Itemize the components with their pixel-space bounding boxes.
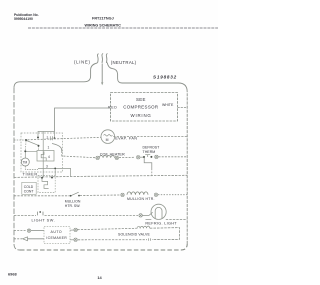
wire mullion to right border	[158, 194, 187, 196]
evap fan motor circle	[101, 130, 115, 144]
svg-text:(LINE): (LINE)	[74, 60, 91, 65]
wire compressor red lead to timer	[55, 108, 111, 132]
connector icemaker out upper	[74, 228, 77, 231]
light switch	[38, 212, 44, 216]
wire evap fan feed	[28, 137, 102, 140]
header rule	[28, 27, 218, 29]
timer dashed box	[21, 133, 63, 172]
wire heater to defrost thermostat	[119, 156, 135, 158]
wire neutral return rail	[14, 175, 187, 177]
power cord hook 3	[106, 54, 107, 64]
wire return to icemaker	[78, 239, 147, 241]
wire icemaker to solenoid	[78, 228, 137, 229]
svg-text:LIGHT SW.: LIGHT SW.	[32, 218, 56, 222]
svg-text:COMPRESSOR: COMPRESSOR	[123, 104, 158, 109]
svg-text:COLD: COLD	[24, 185, 34, 189]
wire TM feed	[25, 151, 37, 158]
svg-text:1: 1	[48, 146, 50, 150]
wire A down to TM node	[24, 141, 27, 151]
wire contact 3 drop	[38, 146, 40, 151]
connector defrost right	[155, 155, 158, 158]
wire icemaker upper	[14, 230, 27, 232]
timer motor lower lead	[25, 166, 38, 169]
wire border to timer common	[14, 139, 26, 141]
wire inner box bottom	[38, 168, 71, 176]
wire light switch line	[14, 214, 36, 216]
cold control dashed box	[38, 176, 55, 193]
svg-text:DEFROST: DEFROST	[143, 146, 161, 150]
svg-text:14: 14	[97, 275, 102, 280]
connector light line	[139, 214, 142, 217]
svg-text:WIRING: WIRING	[131, 113, 152, 118]
svg-text:4: 4	[48, 155, 50, 159]
timer motor circle TM	[21, 158, 29, 166]
mullion heater element	[127, 192, 148, 195]
wire switch to lamp	[45, 214, 139, 216]
svg-text:AUTO: AUTO	[51, 230, 63, 234]
mullion heater switch	[70, 195, 72, 197]
power cord hook 1	[97, 54, 98, 63]
svg-text:TIMER: TIMER	[23, 171, 38, 176]
wire contact 1 drop to cold control	[42, 132, 44, 178]
wire icemaker lower	[14, 238, 22, 240]
timer contact blade	[27, 141, 39, 146]
auto icemaker dashed box	[44, 227, 70, 244]
svg-text:3: 3	[46, 164, 48, 168]
refrigerator lamp	[151, 204, 166, 219]
svg-text:CONT: CONT	[24, 190, 34, 194]
connector on heater left	[96, 156, 99, 159]
lamp leads	[146, 219, 152, 221]
svg-text:THERM: THERM	[143, 150, 156, 154]
timer terminal dots	[25, 139, 27, 141]
timer inner contact box	[37, 151, 54, 162]
svg-text:WHITE: WHITE	[162, 103, 174, 107]
wire evap fan to right border	[113, 136, 187, 138]
wire switch to connector	[80, 194, 120, 197]
wire defrost to right border	[159, 156, 188, 158]
wire connector to lamp	[142, 212, 152, 215]
svg-text:6968: 6968	[8, 272, 17, 277]
defrost thermostat bulb stair	[144, 158, 152, 169]
connector icemaker upper	[27, 229, 30, 232]
power cord hook 2	[102, 54, 103, 64]
defrost thermostat contacts	[140, 156, 144, 158]
svg-text:EVAP. FAN: EVAP. FAN	[115, 137, 137, 141]
wire: line-side rail, left border, bottom border, right border, neutral rail	[14, 63, 97, 88]
water valve solenoid coil	[137, 226, 150, 228]
cold control terminal dots	[41, 177, 43, 179]
svg-text:M: M	[106, 138, 109, 142]
timer cam zigzag	[41, 152, 46, 161]
coil heater element	[99, 156, 114, 158]
wire defrost heater feed	[52, 144, 62, 152]
cold control label box	[22, 182, 36, 194]
svg-text:REFRIG. LIGHT: REFRIG. LIGHT	[145, 222, 177, 226]
connector valve return	[149, 238, 151, 240]
svg-text:SOLENOID VALVE: SOLENOID VALVE	[118, 233, 150, 237]
svg-text:MULLION: MULLION	[65, 199, 81, 203]
svg-text:ICEMAKER: ICEMAKER	[46, 236, 67, 240]
wire contact 2 riser	[38, 132, 55, 138]
connector defrost left	[137, 156, 140, 159]
wire solenoid return loop	[150, 228, 180, 240]
svg-text:FRT21TNGJ: FRT21TNGJ	[92, 16, 114, 20]
wire mullion heater line	[14, 195, 70, 197]
svg-text:HTR. SW.: HTR. SW.	[65, 204, 81, 208]
ground prong wire	[101, 64, 103, 83]
cold control switch element	[42, 179, 49, 189]
arrow connector icemaker lower	[23, 237, 28, 241]
svg-text:5995044190: 5995044190	[14, 17, 33, 21]
wire contact 2 down	[54, 132, 56, 139]
connector on heater right	[115, 156, 118, 159]
svg-text:MULLION HTR.: MULLION HTR.	[127, 197, 155, 201]
compressor dashed box	[111, 93, 178, 122]
connector icemaker out lower	[74, 238, 77, 241]
svg-text:SEE: SEE	[136, 97, 146, 102]
svg-text:S198832: S198832	[153, 75, 177, 80]
connector ticks on fan feed	[50, 136, 52, 140]
svg-text:TM: TM	[23, 161, 28, 165]
wire junction down to rail	[54, 168, 56, 176]
svg-text:WIRING SCHEMATIC: WIRING SCHEMATIC	[85, 24, 122, 28]
wire compressor to right border	[178, 107, 188, 109]
ground prong arrowhead	[101, 82, 103, 85]
svg-text:(NEUTRAL): (NEUTRAL)	[111, 60, 137, 65]
connector mullion right	[154, 193, 157, 196]
connector mullion left	[121, 193, 124, 196]
